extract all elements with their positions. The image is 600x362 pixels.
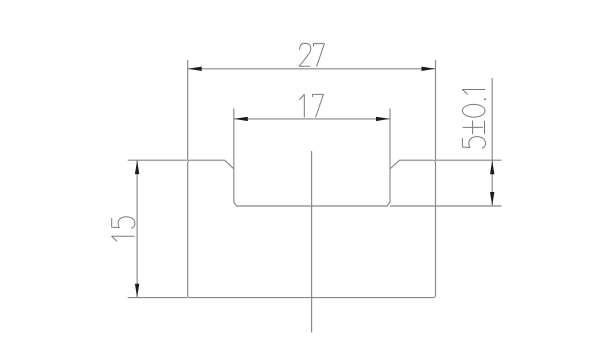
17 left arrow <box>234 117 248 121</box>
5 top arrow <box>490 161 494 175</box>
dim 17 extension line left <box>233 109 235 169</box>
dim 17 dimension line <box>234 118 390 120</box>
dim 5 extension line bottom (continues slot bottom) <box>390 205 502 207</box>
dimension texts drawn with stroke glyphs (upright CAD stick font) <box>112 43 486 241</box>
dim 27 extension line left <box>187 60 189 160</box>
dim 27 extension line right <box>435 60 437 160</box>
5 bottom arrow <box>490 192 494 206</box>
part outline (channel profile cross-section) <box>188 160 436 297</box>
text 17 <box>300 94 305 117</box>
text 5±0.1 (rotated, reads bottom to top) <box>462 137 485 149</box>
17 right arrow <box>376 117 390 121</box>
dim 17 extension line right <box>389 109 391 169</box>
dim 27 dimension line <box>188 68 436 70</box>
text 15 (rotated, reads bottom to top) <box>112 236 135 241</box>
arrowheads (black) <box>135 67 495 298</box>
15 bottom arrow <box>135 284 139 298</box>
centerline <box>311 151 313 333</box>
27 left arrow <box>188 67 202 71</box>
text 27 <box>299 43 311 66</box>
27 right arrow <box>422 67 436 71</box>
dim 5 extension line top <box>436 159 502 161</box>
dim 5 dimension line <box>491 78 493 206</box>
dim 15 dimension line <box>136 160 138 297</box>
dim 15 extension line top <box>128 159 188 161</box>
15 top arrow <box>135 160 139 174</box>
dim 15 extension line bottom <box>128 297 188 299</box>
